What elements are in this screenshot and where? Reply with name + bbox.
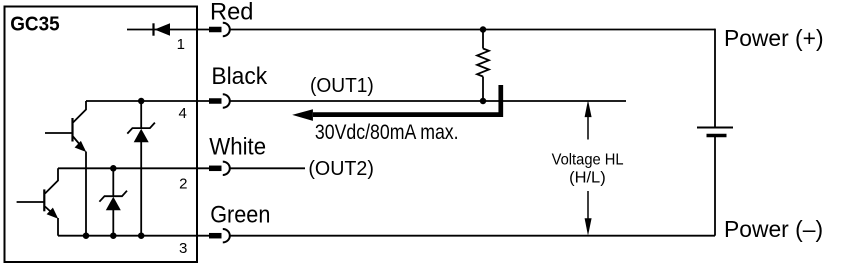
wire white internal (pin 2) [58, 167, 210, 169]
transistor Q2 base lead [17, 201, 45, 203]
junction dot green/Q1 emitter [83, 232, 90, 239]
resistor R lead bottom with junction dot on black [482, 77, 484, 102]
wire black internal (pin 4) [86, 100, 210, 102]
load current arrow (bent thick) [313, 85, 501, 115]
connector pin1 plug [209, 27, 222, 33]
connector pin4 socket arc [223, 94, 230, 107]
zener ZD1 (pin2 to pin3) wire top [112, 168, 114, 196]
battery negative plate [707, 134, 727, 138]
transistor Q1 collector [73, 101, 86, 123]
wire red external [230, 29, 716, 31]
wire red internal (pin 1) [127, 29, 210, 31]
zener ZD2 bar [127, 123, 155, 134]
svg-text:30Vdc/80mA max.: 30Vdc/80mA max. [315, 121, 459, 144]
resistor R lead top with junction dot on red [480, 26, 487, 33]
connector pin2 plug [209, 166, 222, 172]
resistor R zigzag [477, 49, 489, 77]
svg-text:Power (–): Power (–) [724, 216, 823, 242]
diode D1 cathode bar [152, 23, 154, 35]
svg-text:Red: Red [210, 0, 253, 25]
wire white external stub [230, 167, 306, 169]
zener ZD1 triangle [106, 197, 121, 211]
connector pin3 socket arc [223, 229, 230, 242]
zener ZD1 bar [99, 191, 127, 202]
transistor Q2 base bar [43, 189, 45, 211]
svg-text:Voltage HL: Voltage HL [552, 152, 624, 169]
diode D1 triangle [155, 23, 171, 35]
wire Q1 emitter to green line [85, 152, 87, 236]
connector pin3 plug [209, 233, 222, 239]
connector pin1 socket arc [223, 23, 230, 36]
zener ZD2 wire bottom [140, 142, 142, 236]
svg-text:(OUT2): (OUT2) [308, 158, 374, 180]
wire green external [230, 235, 716, 237]
junction dot white/ZD1 [110, 165, 117, 172]
svg-text:(OUT1): (OUT1) [310, 75, 374, 97]
transistor Q2 collector [45, 168, 58, 193]
svg-text:4: 4 [178, 105, 186, 122]
transistor Q1 base lead [45, 132, 73, 134]
transistor Q1 emitter [73, 137, 84, 150]
svg-text:GC35: GC35 [10, 13, 60, 35]
svg-text:1: 1 [177, 36, 185, 53]
junction dot black/ZD2 [138, 98, 145, 105]
sensor outline box GC35 [5, 7, 198, 263]
zener ZD2 triangle [134, 129, 149, 143]
svg-text:White: White [209, 133, 266, 160]
zener ZD2 (pin4 to pin3) wire top [140, 101, 142, 128]
connector pin2 socket arc [223, 162, 230, 175]
wire black external [230, 100, 627, 102]
svg-text:Green: Green [210, 201, 270, 228]
wire right rail bottom (battery to green) [714, 136, 716, 236]
svg-text:(H/L): (H/L) [569, 170, 606, 187]
wire Q2 emitter to green line [57, 218, 59, 236]
transistor Q2 emitter [45, 207, 56, 217]
svg-text:3: 3 [179, 240, 187, 257]
battery positive plate [697, 127, 733, 129]
junction dot green/ZD2 [138, 232, 145, 239]
svg-text:Power (+): Power (+) [724, 25, 824, 51]
zener ZD1 wire bottom [112, 210, 114, 236]
voltage arrow down (to green line) [587, 191, 589, 219]
svg-text:Black: Black [211, 63, 268, 90]
connector pin4 plug [209, 98, 222, 104]
wire right rail top (red to battery) [713, 30, 716, 128]
voltage arrow up (to black line) [587, 116, 589, 140]
wire green internal (pin 3) [58, 235, 210, 237]
svg-text:2: 2 [179, 175, 187, 192]
transistor Q1 base bar [71, 118, 73, 142]
junction dot green/ZD1 [110, 232, 117, 239]
